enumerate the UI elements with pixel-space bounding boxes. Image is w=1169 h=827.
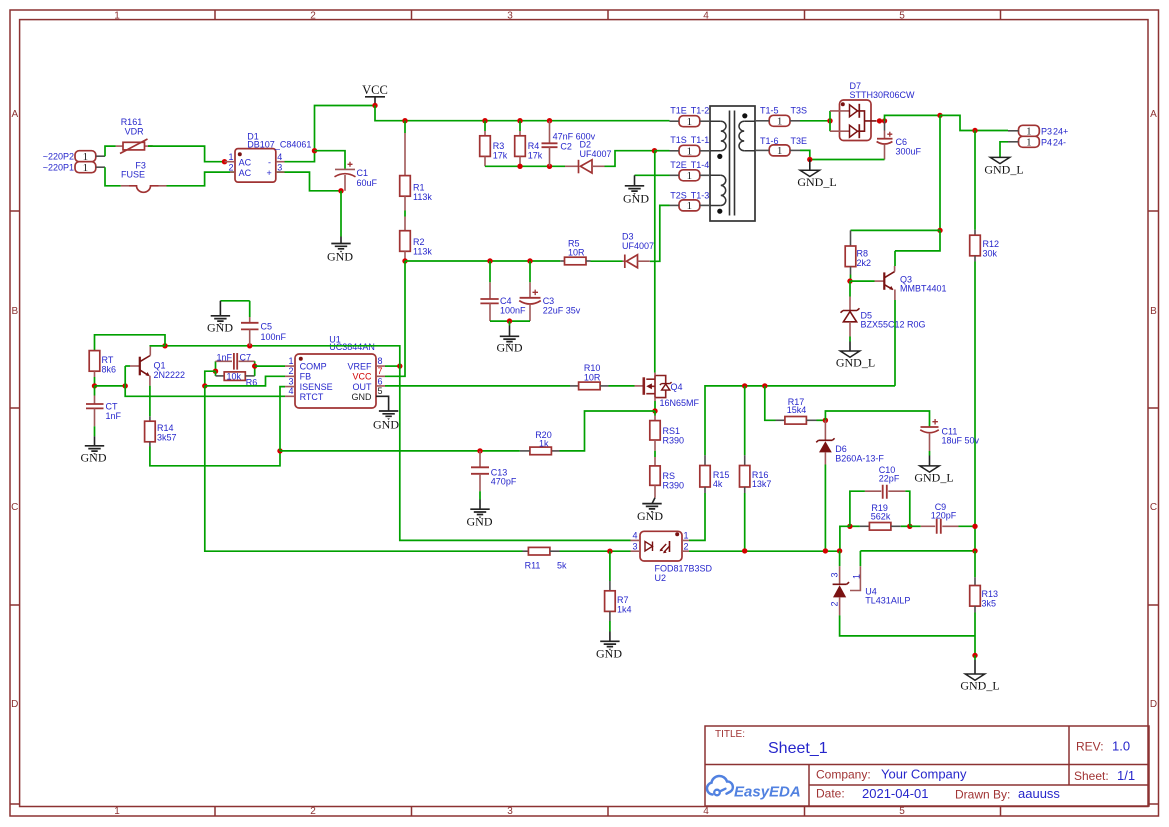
wire RTCT to U1 pin4 <box>125 386 285 396</box>
transistor Q1 2N2222 <box>125 346 185 386</box>
svg-text:R4: R4 <box>528 141 540 151</box>
svg-text:AC: AC <box>239 168 252 178</box>
svg-text:VREF: VREF <box>347 361 372 371</box>
resistor R4 17k <box>515 121 543 167</box>
resistor R19 562k <box>850 503 910 530</box>
wire R15 R16 R17 rail <box>705 386 895 455</box>
svg-text:5: 5 <box>378 386 383 396</box>
svg-text:FOD817B3SD: FOD817B3SD <box>655 564 713 574</box>
ground GND_L (D5) <box>836 337 875 370</box>
wire VCC rail top <box>375 106 670 121</box>
svg-text:GND_L: GND_L <box>836 355 875 369</box>
optocoupler U2 FOD817B3SD <box>631 531 713 583</box>
svg-text:UF4007: UF4007 <box>580 149 612 159</box>
wire P4 to ground <box>1000 142 1008 157</box>
junction C2 bottom <box>547 164 552 169</box>
svg-text:C1: C1 <box>357 168 369 178</box>
svg-text:1/1: 1/1 <box>1117 768 1135 783</box>
svg-text:B: B <box>1150 306 1157 317</box>
resistor R6 10k <box>216 371 258 387</box>
wire to C1 top <box>315 151 346 169</box>
svg-text:5: 5 <box>899 10 905 21</box>
pin T1-6 tab (net T3E) <box>755 136 800 157</box>
junction secondary rail <box>937 113 942 118</box>
svg-text:5: 5 <box>899 806 905 817</box>
svg-text:T1-4: T1-4 <box>691 160 710 170</box>
junction R17 D6 <box>823 418 828 423</box>
junction RT CT <box>92 383 97 388</box>
junction C2 top <box>547 118 552 123</box>
connector P1 ~220P1 <box>43 162 105 174</box>
svg-text:AC: AC <box>239 157 252 167</box>
ground GND_L (C11) <box>914 451 953 484</box>
junction T1S <box>652 148 657 153</box>
wire D7 output <box>885 115 941 121</box>
resistor RS R390 <box>650 451 684 498</box>
capacitor C10 22pF <box>850 465 910 527</box>
wire COMP to U1 pin1 <box>255 365 285 367</box>
svg-text:FB: FB <box>300 372 312 382</box>
junction R7 top <box>607 549 612 554</box>
wire C4 C3 bottoms <box>490 320 530 322</box>
junction GND_L output <box>972 653 977 658</box>
junction C9 R12 column <box>972 524 977 529</box>
resistor R161 VDR <box>116 117 153 154</box>
svg-text:GND_L: GND_L <box>797 175 836 189</box>
svg-text:15k4: 15k4 <box>787 405 807 415</box>
junction VREF rail Q1 <box>162 343 167 348</box>
svg-text:4: 4 <box>703 806 709 817</box>
ground GND (transformer) <box>623 175 649 205</box>
svg-text:4: 4 <box>277 152 282 162</box>
svg-text:C3: C3 <box>543 296 555 306</box>
wire to Q3 collector <box>895 230 940 251</box>
resistor R5 10R <box>560 239 590 265</box>
svg-text:1k: 1k <box>539 438 549 448</box>
svg-text:Your Company: Your Company <box>881 767 967 782</box>
resistor R11 5k <box>523 547 568 570</box>
svg-text:RT: RT <box>102 355 114 365</box>
svg-text:562k: 562k <box>871 511 891 521</box>
junction C1 bottom <box>338 188 343 193</box>
ground GND (C4 C3) <box>497 321 523 354</box>
junction R4 bottom <box>517 164 522 169</box>
svg-text:R12: R12 <box>983 239 1000 249</box>
svg-text:R390: R390 <box>663 480 685 490</box>
svg-text:2N2222: 2N2222 <box>154 370 186 380</box>
wire VREF pin8 <box>385 365 400 367</box>
svg-text:10k: 10k <box>227 372 242 382</box>
wire C5 to ground <box>220 300 249 302</box>
svg-text:GND: GND <box>467 514 493 528</box>
svg-text:3: 3 <box>632 542 637 552</box>
junction R3 top <box>482 118 487 123</box>
resistor R1 113k <box>400 121 433 211</box>
junction D6 bottom <box>823 548 828 553</box>
resistor R14 3k57 <box>145 386 177 447</box>
capacitor C11 18uF 50v <box>920 419 979 451</box>
junction R8 node <box>937 228 942 233</box>
wire C7R6 right node <box>254 361 256 376</box>
svg-text:4: 4 <box>632 531 637 541</box>
junction D1 pin1 <box>222 159 227 164</box>
svg-text:CT: CT <box>106 402 118 412</box>
wire T1-5 to D7 <box>800 120 830 122</box>
svg-text:2: 2 <box>830 601 840 606</box>
svg-text:7: 7 <box>378 366 383 376</box>
resistor R17 15k4 <box>765 386 826 424</box>
svg-text:OUT: OUT <box>353 382 373 392</box>
diode D3 UF4007 <box>622 232 654 269</box>
TITLE BLOCK <box>705 726 1149 806</box>
junction ISENSE node <box>277 448 282 453</box>
wire T1S vertical to Q4 drain <box>654 151 656 373</box>
junction Q4 source <box>652 408 657 413</box>
svg-text:TITLE:: TITLE: <box>715 729 745 740</box>
svg-text:13k7: 13k7 <box>752 479 772 489</box>
svg-text:30k: 30k <box>983 249 998 259</box>
capacitor C5 100nF <box>241 301 287 346</box>
svg-text:T3E: T3E <box>791 136 808 146</box>
svg-text:GND: GND <box>623 192 649 206</box>
svg-text:1: 1 <box>288 356 293 366</box>
ground GND_L (P4) <box>984 157 1023 176</box>
wire RTCT segment A <box>95 385 126 387</box>
wire R20 to C13 node <box>280 450 520 452</box>
svg-text:18uF 50v: 18uF 50v <box>942 436 980 446</box>
svg-text:GND: GND <box>81 450 107 464</box>
svg-text:GND: GND <box>637 509 663 523</box>
svg-text:T2S: T2S <box>670 190 687 200</box>
svg-text:120pF: 120pF <box>931 510 957 520</box>
capacitor C1 60uF <box>335 162 378 191</box>
svg-text:T1-3: T1-3 <box>691 190 710 200</box>
svg-text:100nF: 100nF <box>500 306 526 316</box>
svg-text:Date:: Date: <box>816 787 845 801</box>
svg-text:VCC: VCC <box>362 83 388 97</box>
svg-text:R8: R8 <box>857 249 869 259</box>
capacitor C9 120pF <box>910 502 975 534</box>
svg-text:R11: R11 <box>525 560 541 570</box>
svg-text:300uF: 300uF <box>896 146 922 156</box>
svg-text:3: 3 <box>288 376 293 386</box>
svg-text:3: 3 <box>507 806 513 817</box>
wire to R8 <box>851 229 941 231</box>
svg-text:C2: C2 <box>560 141 572 151</box>
svg-text:R2: R2 <box>413 237 425 247</box>
pin T1-2 tab (net T1E) <box>670 106 711 129</box>
transistor Q3 MMBT4401 <box>850 251 947 386</box>
svg-text:470pF: 470pF <box>491 477 517 487</box>
junction D7 output a <box>877 118 882 123</box>
svg-text:U2: U2 <box>655 573 667 583</box>
transformer T1 <box>710 106 755 221</box>
junction R4 top <box>517 118 522 123</box>
svg-text:aauuss: aauuss <box>1018 786 1060 801</box>
svg-text:22pF: 22pF <box>879 474 900 484</box>
resistor R16 13k7 <box>740 386 772 551</box>
svg-text:EasyEDA: EasyEDA <box>734 784 801 801</box>
junction R2 bottom <box>402 258 407 263</box>
svg-text:COMP: COMP <box>300 361 327 371</box>
wire R17 node to C11 <box>825 411 929 427</box>
connector P3 24+ <box>1008 125 1068 137</box>
connector P2 ~220P2 <box>43 151 105 163</box>
wire D2 to T1S net <box>605 151 655 167</box>
junction R12 top <box>972 128 977 133</box>
svg-text:R390: R390 <box>663 435 685 445</box>
capacitor C7 1nF <box>216 352 255 371</box>
svg-text:Q4: Q4 <box>671 382 683 392</box>
wire R14 to ISENSE loop <box>150 447 280 466</box>
EasyEDA logo <box>707 776 801 801</box>
wire VDR to corner <box>148 145 153 147</box>
junction U4 cathode <box>837 548 842 553</box>
svg-text:R14: R14 <box>157 423 174 433</box>
junction R16 bottom <box>742 548 747 553</box>
resistor R20 1k <box>520 430 560 455</box>
wire rail y261 <box>405 260 560 262</box>
junction VREF <box>397 363 402 368</box>
svg-text:3k5: 3k5 <box>982 598 997 608</box>
capacitor C3 22uF 35v <box>519 261 581 321</box>
svg-text:MMBT4401: MMBT4401 <box>900 284 947 294</box>
wire T2S vertical <box>650 205 670 261</box>
wire C10 left link to U4 column <box>840 526 850 551</box>
svg-text:REV:: REV: <box>1076 740 1104 754</box>
junction C3 top <box>527 258 532 263</box>
svg-text:16N65MF: 16N65MF <box>660 398 700 408</box>
svg-text:T3S: T3S <box>791 106 808 116</box>
ground GND_L (R13) <box>960 655 999 692</box>
transistor Q4 16N65MF <box>635 373 700 408</box>
svg-text:1k4: 1k4 <box>617 605 632 615</box>
svg-text:RTCT: RTCT <box>300 392 324 402</box>
ground GND (U1 pin5) <box>373 411 399 432</box>
wire T1S to tab <box>655 150 670 152</box>
wire input branches <box>105 146 285 186</box>
svg-text:6: 6 <box>378 376 383 386</box>
svg-text:3: 3 <box>507 10 513 21</box>
svg-text:GND: GND <box>207 320 233 334</box>
svg-text:C7: C7 <box>240 352 252 362</box>
fuse F3 <box>121 161 167 193</box>
junction FB node <box>202 383 207 388</box>
diode D5 BZX55C12 (zener) <box>841 281 926 336</box>
connector P4 24- <box>1008 136 1066 148</box>
svg-text:Sheet:: Sheet: <box>1074 769 1109 783</box>
wire snubber rail y166 <box>485 165 565 167</box>
svg-text:+: + <box>267 168 272 178</box>
svg-text:3: 3 <box>830 572 840 577</box>
resistor R7 1k4 <box>605 551 632 621</box>
resistor R13 3k5 <box>970 551 998 656</box>
svg-text:2k2: 2k2 <box>857 258 872 268</box>
junction D7 input <box>827 118 832 123</box>
svg-text:2: 2 <box>310 10 316 21</box>
svg-text:R7: R7 <box>617 595 629 605</box>
wire secondary feedback vertical <box>939 115 941 230</box>
svg-text:GND: GND <box>373 418 399 432</box>
svg-text:D: D <box>11 699 18 710</box>
svg-text:P4: P4 <box>1041 137 1052 147</box>
junction C13 top <box>477 448 482 453</box>
svg-text:P3: P3 <box>1041 126 1052 136</box>
svg-text:2: 2 <box>684 542 689 552</box>
ground GND_L (secondary) <box>797 160 836 190</box>
junction VREF rail C5 <box>247 343 252 348</box>
junction R19 right <box>907 524 912 529</box>
svg-text:1.0: 1.0 <box>1112 739 1130 754</box>
svg-text:~220P2: ~220P2 <box>43 151 74 161</box>
capacitor C4 100nF <box>480 261 526 321</box>
resistor R10 10R <box>570 363 635 390</box>
resistor R3 17k <box>480 121 508 167</box>
junction VCC <box>372 103 377 108</box>
svg-text:4: 4 <box>703 10 709 21</box>
resistor RS1 R390 <box>650 411 684 451</box>
svg-text:STTH30R06CW: STTH30R06CW <box>850 90 916 100</box>
svg-text:GND_L: GND_L <box>960 678 999 692</box>
junction R1 top <box>402 118 407 123</box>
svg-text:FUSE: FUSE <box>121 170 145 180</box>
svg-text:10R: 10R <box>568 247 585 257</box>
svg-text:1: 1 <box>852 574 862 579</box>
svg-text:Sheet_1: Sheet_1 <box>768 740 828 757</box>
junction COMP node <box>252 363 257 368</box>
junction R12 R13 <box>972 548 977 553</box>
junction R19 left <box>847 524 852 529</box>
wire T2E to ground <box>635 174 670 176</box>
svg-text:DB107_C84061: DB107_C84061 <box>247 140 311 150</box>
ground GND (C1) <box>327 244 353 264</box>
svg-text:UF4007: UF4007 <box>622 241 654 251</box>
svg-text:VCC: VCC <box>352 372 372 382</box>
power VCC <box>362 83 388 106</box>
svg-text:GND: GND <box>352 392 373 402</box>
svg-text:1: 1 <box>114 806 120 817</box>
wire R11 to opto pin3 <box>560 550 631 552</box>
svg-text:24+: 24+ <box>1053 126 1068 136</box>
wire FB segment to U1 pin2 <box>205 376 285 386</box>
capacitor C6 300uF <box>877 121 922 160</box>
pin T1-5 tab (net T3S) <box>755 106 800 128</box>
svg-text:8: 8 <box>378 356 383 366</box>
svg-text:60uF: 60uF <box>357 178 378 188</box>
svg-text:2021-04-01: 2021-04-01 <box>862 786 929 801</box>
svg-text:8k6: 8k6 <box>102 365 117 375</box>
svg-text:BZX55C12 R0G: BZX55C12 R0G <box>861 320 926 330</box>
wire VREF rail <box>150 346 399 366</box>
svg-text:C4: C4 <box>500 296 512 306</box>
svg-text:T1-6: T1-6 <box>760 136 779 146</box>
svg-text:T1E: T1E <box>670 106 687 116</box>
wire D1 pin4 to VCC riser <box>285 106 376 162</box>
junction C1 top <box>312 148 317 153</box>
junction R16 top <box>742 383 747 388</box>
junction Q1 base <box>123 383 128 388</box>
svg-text:B260A-13-F: B260A-13-F <box>835 453 884 463</box>
resistor R2 113k <box>400 211 433 262</box>
svg-text:T1-5: T1-5 <box>760 106 779 116</box>
svg-text:C5: C5 <box>261 321 273 331</box>
svg-text:17k: 17k <box>493 151 508 161</box>
svg-text:T1S: T1S <box>670 135 687 145</box>
svg-text:1nF: 1nF <box>106 411 122 421</box>
svg-text:~220P1: ~220P1 <box>43 163 74 173</box>
capacitor C13 470pF <box>471 451 517 491</box>
wire to P3 <box>940 115 1008 130</box>
svg-text:3k57: 3k57 <box>157 433 177 443</box>
resistor R15 4k <box>700 455 730 493</box>
resistor RT 8k6 <box>89 335 165 386</box>
wire U4 ref line <box>860 550 975 552</box>
svg-text:22uF 35v: 22uF 35v <box>543 306 581 316</box>
wire R5 to D3 <box>591 260 623 262</box>
svg-text:R3: R3 <box>493 141 505 151</box>
svg-text:D: D <box>1150 699 1157 710</box>
svg-text:17k: 17k <box>528 151 543 161</box>
svg-text:1nF: 1nF <box>217 352 233 362</box>
capacitor C2 47nF 600v <box>542 121 596 167</box>
op-amp U1 UC3844AN <box>285 335 389 412</box>
svg-text:1: 1 <box>114 10 120 21</box>
pin T1-4 tab (net T2E) <box>670 160 711 182</box>
wire C1 bottom to ground <box>340 191 342 244</box>
junction R17 branch <box>762 383 767 388</box>
svg-text:1: 1 <box>228 152 233 162</box>
resistor R8 2k2 <box>845 230 871 281</box>
ground GND (CT) <box>81 426 107 464</box>
svg-text:ISENSE: ISENSE <box>300 382 333 392</box>
wire R15 to opto pin1 <box>689 493 705 540</box>
wire opto pin2 line <box>689 550 840 552</box>
junction GND_L T3E <box>807 157 812 162</box>
junction C7 R6 left <box>213 369 218 374</box>
svg-text:5k: 5k <box>557 560 567 570</box>
svg-text:2: 2 <box>310 806 316 817</box>
svg-text:B: B <box>11 306 18 317</box>
svg-text:A: A <box>11 109 18 120</box>
svg-text:A: A <box>1150 109 1157 120</box>
svg-text:4k: 4k <box>713 479 723 489</box>
svg-text:3: 3 <box>277 163 282 173</box>
svg-text:GND_L: GND_L <box>914 470 953 484</box>
ground GND (RS) <box>637 498 663 523</box>
wire FB column to R11 <box>205 386 523 551</box>
ground GND (C13) <box>467 491 493 528</box>
junction C4 top <box>487 258 492 263</box>
svg-text:Drawn By:: Drawn By: <box>955 788 1010 802</box>
capacitor CT 1nF <box>86 386 122 426</box>
svg-text:GND: GND <box>497 340 523 354</box>
wire T3E to C6 bottom <box>800 150 885 159</box>
pin T1-3 tab (net T2S) <box>670 190 711 212</box>
svg-text:T2E: T2E <box>670 160 687 170</box>
svg-text:-: - <box>268 157 271 167</box>
resistor R12 30k <box>970 131 999 551</box>
wire ISENSE riser <box>280 387 285 451</box>
pin T1-1 tab (net T1S) <box>670 135 711 158</box>
diode D2 UF4007 <box>565 140 612 174</box>
svg-text:2: 2 <box>228 163 233 173</box>
wire VCC pin7 riser <box>385 261 405 376</box>
svg-text:113k: 113k <box>413 192 432 202</box>
wire D1 pin3 down <box>285 172 342 191</box>
svg-text:R1: R1 <box>413 183 425 193</box>
diode D6 B260A-13-F <box>816 420 884 551</box>
svg-text:GND_L: GND_L <box>984 162 1023 176</box>
